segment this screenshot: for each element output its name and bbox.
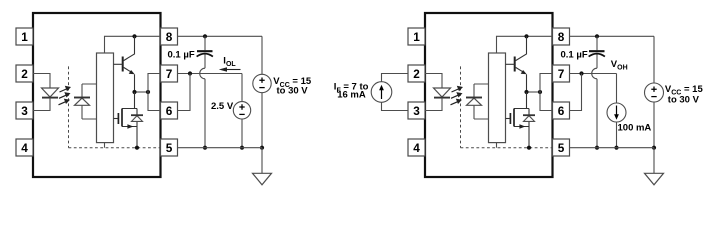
light emission arrow 3 (U1) <box>59 99 71 105</box>
pin 5 (U2) <box>553 139 570 156</box>
svg-text:0.1 µF: 0.1 µF <box>561 50 588 61</box>
junction pin8 wire / capacitor (right) <box>595 34 599 38</box>
wire amp top to VCC rail (U2) <box>497 36 553 53</box>
transistor Q2a NPN <box>506 36 527 92</box>
svg-text:7: 7 <box>558 67 565 81</box>
source I2 100 mA load <box>607 74 626 148</box>
amplifier block (U2) <box>489 53 506 143</box>
wire GND rail (left) <box>178 147 263 149</box>
junction capacitor / GND rail <box>595 146 599 150</box>
wire pin7 output node (right) <box>570 73 617 75</box>
svg-text:8: 8 <box>166 30 173 44</box>
junction pin7 wire / pin6 jog (left) <box>188 71 192 75</box>
junction MOSFET source / GND rail (U2) <box>527 146 531 150</box>
photodiode D2b <box>466 84 489 119</box>
wire output node to pin7 (U2) <box>540 74 553 93</box>
svg-text:5: 5 <box>558 141 565 155</box>
dashed ground boundary line (U2) <box>461 147 553 149</box>
light emission arrow 2 (U1) <box>59 92 71 98</box>
dashed optical barrier (U1) <box>68 66 70 147</box>
pin 5 (U1) <box>161 139 178 156</box>
svg-text:0.1 µF: 0.1 µF <box>168 50 195 61</box>
wire pin8 to VCC source (left) <box>178 35 263 37</box>
svg-text:3: 3 <box>413 104 420 118</box>
LED D1a <box>42 88 59 98</box>
wire amp top to VCC rail (U1) <box>105 36 161 53</box>
svg-text:to 30 V: to 30 V <box>277 86 309 97</box>
svg-text:5: 5 <box>166 141 173 155</box>
capacitor C1 0.1uF <box>197 36 213 68</box>
source V1 2.5 V <box>233 74 250 148</box>
junction VCC rail / Q2 collector (U2) <box>524 34 528 38</box>
pin 8 (U2) <box>553 28 570 45</box>
wire amp bottom to GND rail (U2) <box>496 143 498 148</box>
pin 7 (U2) <box>553 65 570 82</box>
junction pin7 wire / pin6 jog (right) <box>579 71 583 75</box>
junction VCC / GND rail (right) <box>652 146 656 150</box>
pin 1 (U1) <box>16 28 33 45</box>
wire capacitor to GND rail <box>204 79 206 148</box>
svg-text:16 mA: 16 mA <box>337 90 366 101</box>
wire pin2 to LED anode (U1) <box>33 74 50 89</box>
wire GND rail (right) <box>570 147 655 149</box>
IC package U2 outline <box>425 13 553 177</box>
wire emitter node row (U2) <box>527 91 541 93</box>
wire jog pin7 to pin6 (left) <box>178 74 191 111</box>
source VCC (left) <box>253 36 271 147</box>
dashed optical barrier (U2) <box>460 66 462 147</box>
junction VCC rail / Q1 collector (U1) <box>132 34 136 38</box>
wire LED cathode to pin3 (U1) <box>33 98 50 111</box>
junction pin8 wire / capacitor (left) <box>203 34 207 38</box>
pin 4 (U1) <box>16 139 33 156</box>
svg-text:2: 2 <box>413 67 420 81</box>
junction output node (U2) <box>538 90 542 94</box>
svg-text:to 30 V: to 30 V <box>668 94 700 105</box>
LED D2a <box>434 88 451 98</box>
ground symbol <box>253 148 272 185</box>
junction I2 / GND rail (right) <box>614 146 618 150</box>
svg-text:1: 1 <box>413 30 420 44</box>
IC package U1 outline <box>33 13 161 177</box>
svg-text:100 mA: 100 mA <box>618 122 652 133</box>
light emission arrow 3 (U2) <box>451 99 463 105</box>
svg-text:8: 8 <box>558 30 565 44</box>
svg-text:4: 4 <box>413 141 420 155</box>
junction MOSFET source / GND rail (U1) <box>135 146 139 150</box>
pin 2 (U1) <box>16 65 33 82</box>
capacitor C2 0.1uF <box>589 36 605 68</box>
svg-text:4: 4 <box>21 141 28 155</box>
wire pin7 output node (left) <box>178 73 243 75</box>
MOSFET Q2b <box>506 92 530 129</box>
wire output node to pin6 (U2) <box>540 92 553 111</box>
wire LED cathode to pin3 (U2) <box>425 98 442 111</box>
pin 1 (U2) <box>408 28 425 45</box>
svg-text:1: 1 <box>21 30 28 44</box>
body diode D1c <box>131 109 143 148</box>
wire emitter node row (U1) <box>135 91 149 93</box>
source IF current source <box>371 74 408 111</box>
pin 2 (U2) <box>408 65 425 82</box>
pin 3 (U2) <box>408 102 425 119</box>
current annotation arrow IOL <box>219 67 241 72</box>
svg-text:7: 7 <box>166 67 173 81</box>
junction emitter node (U2) <box>524 90 528 94</box>
svg-text:3: 3 <box>21 104 28 118</box>
svg-text:6: 6 <box>558 104 565 118</box>
wire capacitor to GND rail <box>596 79 598 148</box>
junction capacitor / GND rail <box>203 146 207 150</box>
svg-text:VOH: VOH <box>611 59 628 72</box>
body diode D2c <box>523 109 535 148</box>
junction emitter node (U1) <box>132 90 136 94</box>
wire output node to pin6 (U1) <box>148 92 161 111</box>
junction output node (U1) <box>146 90 150 94</box>
pin 8 (U1) <box>161 28 178 45</box>
junction V1 / GND rail (left) <box>240 146 244 150</box>
amplifier block (U1) <box>97 53 114 143</box>
wire output node to pin7 (U1) <box>148 74 161 93</box>
photodiode D1b <box>74 84 97 119</box>
junction VCC / GND rail (left) <box>260 146 264 150</box>
ground symbol <box>645 148 664 185</box>
dashed ground boundary line (U1) <box>69 147 161 149</box>
svg-text:6: 6 <box>166 104 173 118</box>
svg-text:2: 2 <box>21 67 28 81</box>
wire pin8 to VCC source (right) <box>570 35 655 37</box>
light emission arrow 2 (U2) <box>451 92 463 98</box>
wire pin2 to LED anode (U2) <box>425 74 442 89</box>
wire capacitor hop over output wire <box>200 68 205 79</box>
wire jog pin7 to pin6 (right) <box>570 74 582 111</box>
pin 6 (U2) <box>553 102 570 119</box>
svg-text:IOL: IOL <box>223 55 236 68</box>
wire amp bottom to GND rail (U1) <box>104 143 106 148</box>
transistor Q1a NPN <box>114 36 135 92</box>
pin 4 (U2) <box>408 139 425 156</box>
pin 7 (U1) <box>161 65 178 82</box>
source VCC (right) <box>645 36 664 147</box>
light emission arrow 1 (U2) <box>452 86 464 92</box>
pin 6 (U1) <box>161 102 178 119</box>
MOSFET Q1b <box>114 92 138 129</box>
svg-text:2.5 V: 2.5 V <box>211 101 234 112</box>
pin 3 (U1) <box>16 102 33 119</box>
light emission arrow 1 (U1) <box>60 86 72 92</box>
wire capacitor hop over output wire <box>592 68 597 79</box>
